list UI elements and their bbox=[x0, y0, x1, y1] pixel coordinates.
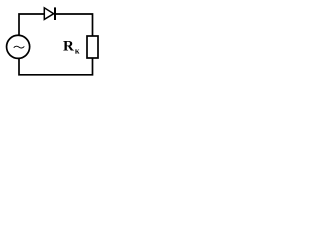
diode VD cathode bar bbox=[54, 7, 56, 20]
diode VD (triangle anode) bbox=[44, 8, 53, 20]
svg-text:к: к bbox=[75, 46, 80, 55]
svg-text:R: R bbox=[63, 38, 74, 54]
AC source sine-wave symbol bbox=[14, 46, 25, 48]
wire: diode cathode right and down to resistor top bbox=[55, 14, 93, 36]
wire: resistor bottom down, left along bottom, up to AC source bottom terminal bbox=[19, 58, 93, 75]
resistor Rk (load) box bbox=[87, 36, 98, 58]
AC source G1 (circle) bbox=[7, 35, 30, 58]
wire: AC source top terminal up and right to diode anode bbox=[19, 14, 44, 35]
